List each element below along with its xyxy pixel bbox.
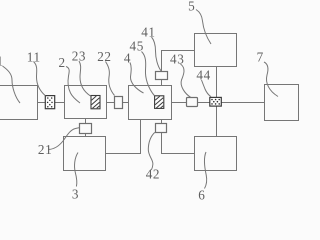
svg-text:11: 11 <box>27 50 41 65</box>
svg-text:41: 41 <box>141 25 155 40</box>
svg-text:6: 6 <box>198 187 205 200</box>
svg-text:23: 23 <box>72 49 86 64</box>
svg-text:1: 1 <box>0 54 4 69</box>
svg-text:45: 45 <box>130 39 144 54</box>
svg-text:21: 21 <box>38 142 52 157</box>
svg-text:43: 43 <box>170 51 184 66</box>
svg-text:2: 2 <box>59 55 66 70</box>
svg-text:3: 3 <box>72 186 79 200</box>
svg-text:44: 44 <box>196 68 210 83</box>
svg-text:5: 5 <box>188 0 195 14</box>
svg-text:7: 7 <box>257 49 264 64</box>
svg-text:22: 22 <box>97 49 111 64</box>
svg-text:42: 42 <box>146 167 160 182</box>
